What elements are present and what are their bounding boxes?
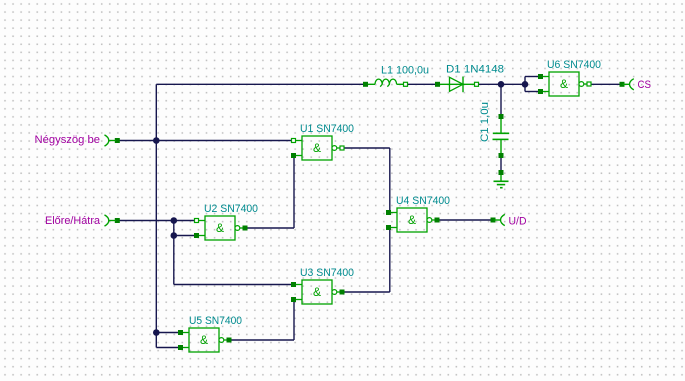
wire: U6 output to CS port [591, 83, 622, 85]
inductor L1 [363, 79, 408, 87]
junction: node at C1 branch [498, 81, 505, 88]
svg-text:U2 SN7400: U2 SN7400 [204, 203, 258, 215]
op-amp U6 (NAND gate SN7400) [538, 72, 591, 96]
input port Elore/Hatra [105, 215, 116, 226]
op-amp U1 (NAND gate SN7400) [291, 136, 344, 160]
wire: U2 output horizontal [245, 227, 294, 229]
svg-text:&: & [560, 77, 568, 91]
wire: U4 output to U/D port [439, 219, 493, 221]
wire: node C1 to node U6 [501, 83, 525, 85]
wire: L1 to D1 [407, 83, 436, 85]
ground symbol [494, 170, 509, 188]
svg-text:U6 SN7400: U6 SN7400 [547, 59, 601, 71]
wire: top bus horizontal from main vertical to L1 [156, 83, 363, 85]
wire: to U2 pin 2 [174, 235, 197, 237]
wire: U2 output up to U1 pin 2 [293, 156, 295, 229]
svg-text:D1 1N4148: D1 1N4148 [446, 64, 504, 76]
wire: Elore/Hatra input to junction [117, 220, 174, 222]
svg-text:U4 SN7400: U4 SN7400 [396, 195, 450, 207]
op-amp U3 (NAND gate SN7400) [291, 280, 345, 304]
svg-text:U/D: U/D [509, 216, 527, 228]
svg-text:C1 1,0u: C1 1,0u [479, 102, 491, 142]
op-amp U4 (NAND gate SN7400) [386, 208, 440, 232]
diode D1 1N4148 [435, 77, 479, 93]
output port CS [623, 79, 634, 90]
junction: branch to U2 pin2 [171, 232, 178, 239]
svg-text:Négyszög be: Négyszög be [35, 134, 101, 146]
op-amp U2 (NAND gate SN7400) [194, 216, 248, 240]
wire: to U6 pin 2 [525, 91, 541, 93]
svg-text:&: & [200, 333, 208, 347]
output port U/D [494, 214, 505, 225]
wire: U1 output down to U4 pin 1 [389, 148, 391, 213]
wire: U1 output horizontal [342, 147, 390, 149]
wire: Negyszog be input to U1 pin 1 [117, 140, 294, 142]
svg-text:L1 100,0u: L1 100,0u [381, 65, 429, 77]
wire: second vertical bus [173, 221, 175, 285]
wire: second vertical to U3 pin 1 [174, 284, 294, 286]
svg-text:Előre/Hátra: Előre/Hátra [45, 215, 101, 227]
wire: to U5 pin 2 [156, 347, 180, 349]
wire: C1 branch down from node [500, 84, 502, 116]
junction: node at U6 bracket [522, 81, 529, 88]
svg-text:&: & [313, 285, 321, 299]
svg-text:U5 SN7400: U5 SN7400 [189, 315, 242, 327]
junction: Negyszog wire x main vertical [153, 137, 160, 144]
svg-text:&: & [408, 213, 416, 227]
svg-text:U3 SN7400: U3 SN7400 [300, 267, 354, 279]
wire: junction to U2 pin 1 [174, 220, 197, 222]
junction: Elore wire to U2 pin1 [171, 217, 178, 224]
wire: C1 to ground [500, 156, 502, 173]
svg-text:CS: CS [638, 79, 652, 91]
junction: main vertical to U5 [153, 329, 160, 336]
svg-text:&: & [216, 221, 224, 235]
svg-text:&: & [313, 141, 321, 155]
wire: U6 input bracket vertical [524, 77, 526, 92]
svg-text:U1 SN7400: U1 SN7400 [300, 123, 354, 135]
wire: U5 output horizontal [229, 339, 294, 341]
op-amp U5 (NAND gate SN7400) [178, 328, 232, 352]
wire: U5 output up to U3 pin 2 [293, 300, 295, 341]
wire: main vertical to U5 pin 1 [156, 332, 180, 334]
wire: main vertical bus left [155, 84, 157, 347]
wire: D1 to node C1 [479, 83, 502, 85]
wire: U3 output horizontal [341, 291, 390, 293]
input port Negyszog be [105, 135, 116, 146]
capacitor C1 [493, 114, 510, 158]
wire: to U6 pin 1 [525, 76, 541, 78]
wire: U3 output up to U4 pin 2 [389, 228, 391, 293]
